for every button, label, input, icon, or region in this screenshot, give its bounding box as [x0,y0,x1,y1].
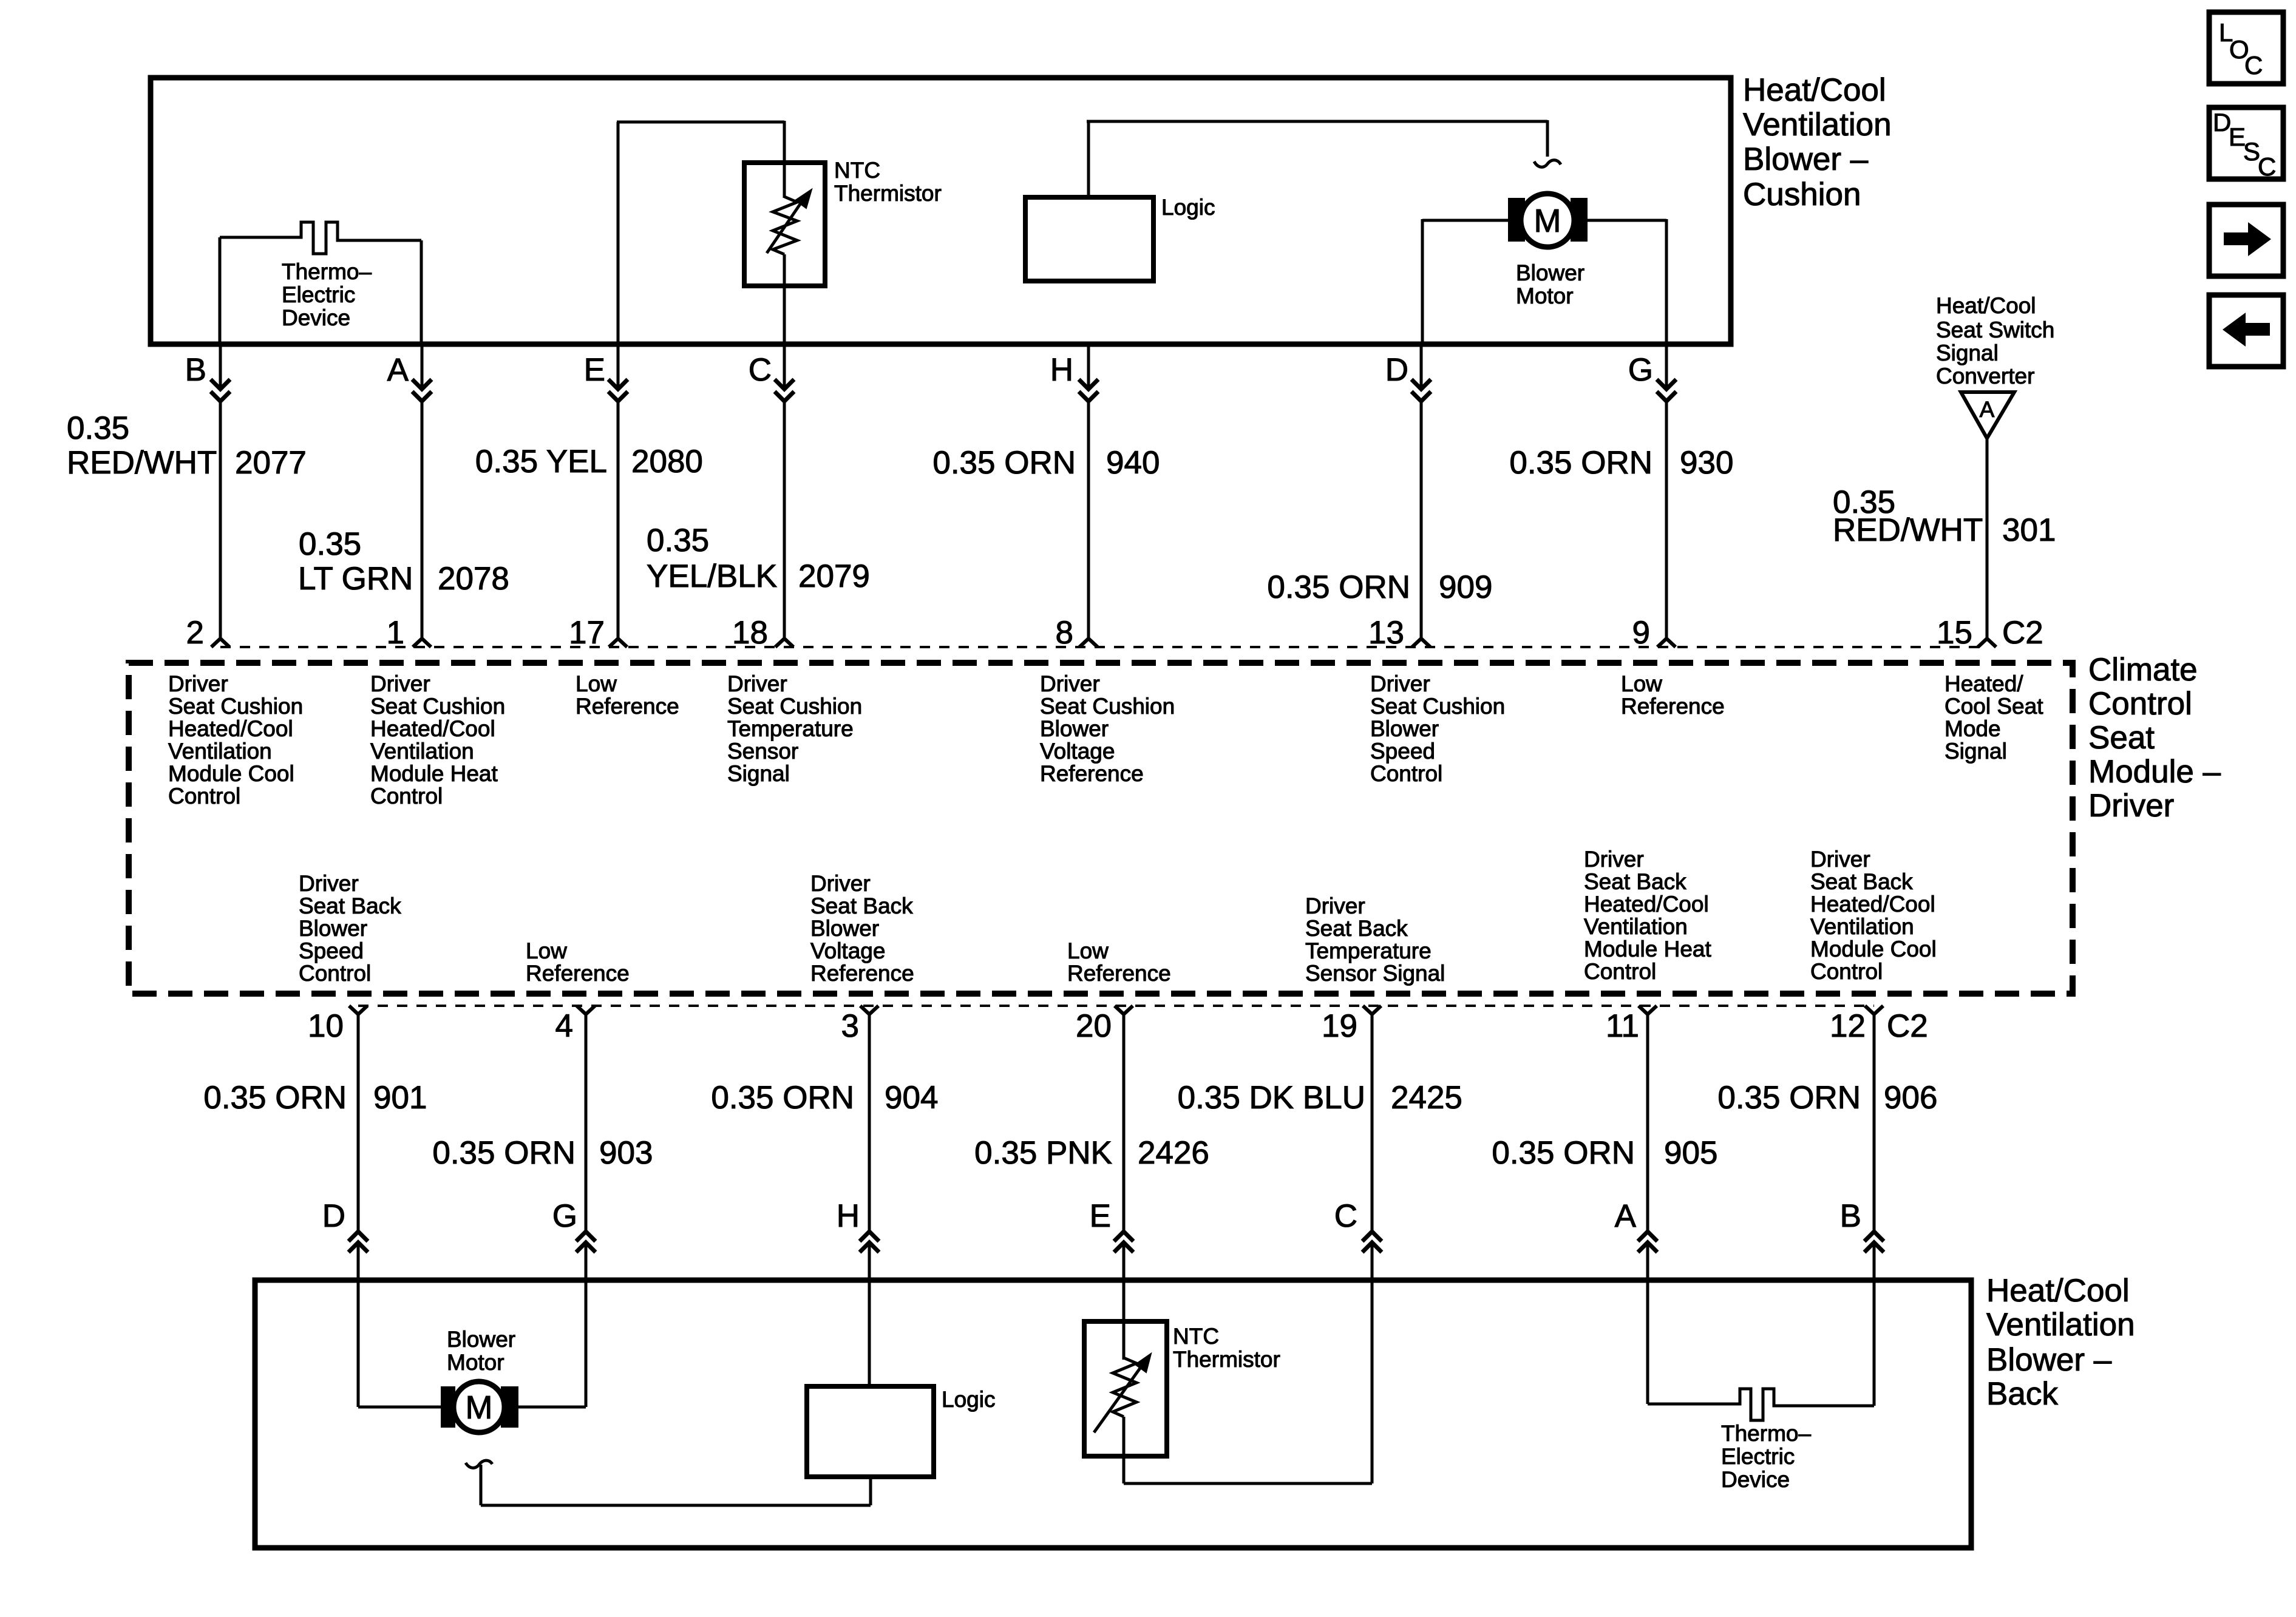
svg-text:NTC: NTC [834,158,880,183]
label: 0.35 LT GRN circuit 2078 [298,526,509,597]
svg-text:Voltage: Voltage [810,938,885,963]
svg-text:1: 1 [387,615,404,651]
svg-text:Seat Back: Seat Back [810,893,913,918]
wire: pin 12 to B with arrows [1873,1014,1876,1232]
svg-text:Driver: Driver [727,671,787,696]
label: 0.35 PNK circuit 2426 [974,1135,1209,1171]
svg-text:Low: Low [576,671,617,696]
svg-text:Device: Device [282,305,350,330]
thermo-electric device (back) heater element symbol [1648,1389,1874,1420]
svg-text:0.35 ORN: 0.35 ORN [1267,569,1410,605]
svg-text:909: 909 [1439,569,1492,605]
svg-text:Control: Control [1370,761,1442,786]
svg-text:Driver: Driver [1305,893,1365,918]
connector fork pin 10 [349,1006,367,1014]
blower motor M2 (back) body [453,1381,504,1432]
svg-text:Seat Cushion: Seat Cushion [1040,694,1175,719]
svg-text:18: 18 [732,615,768,651]
svg-text:0.35: 0.35 [299,526,361,562]
svg-text:Control: Control [1584,959,1656,984]
blower motor M2 (back) left brush [441,1386,455,1428]
svg-text:Control: Control [168,784,240,808]
svg-text:Module Cool: Module Cool [1810,937,1937,961]
svg-text:Signal: Signal [727,761,790,786]
svg-text:Module Heat: Module Heat [1584,937,1712,961]
label: pin 9 function: Low Reference [1621,671,1725,719]
svg-text:Ventilation: Ventilation [168,739,272,764]
svg-text:2426: 2426 [1138,1135,1209,1171]
converter triangle symbol A [1961,392,2014,438]
svg-text:Blower: Blower [1516,260,1584,285]
svg-text:C: C [2258,152,2276,181]
svg-text:Seat Cushion: Seat Cushion [1370,694,1505,719]
label: pin 18 function: Driver Seat Cushion Temperature Sensor Signal [727,671,862,786]
wire: pin E lead into back thermistor [1123,1279,1126,1360]
label: NTC Thermistor (cushion) [834,158,942,206]
connector fork pin 18 [775,639,793,647]
svg-text:C: C [1334,1198,1357,1234]
wire: motor right lead [1588,219,1666,222]
svg-text:Motor: Motor [447,1350,504,1375]
svg-text:0.35 ORN: 0.35 ORN [1509,445,1652,481]
svg-text:Mode: Mode [1944,716,2001,741]
svg-text:Speed: Speed [299,938,364,963]
svg-text:Motor: Motor [1516,283,1574,308]
NTC thermistor (cushion) arrow [767,196,806,253]
label: 0.35 ORN circuit 940 [932,445,1160,481]
wire: pin G drop with arrows [1665,344,1668,389]
label: 0.35 ORN circuit 930 [1509,445,1733,481]
wire: converter to pin 15 [1986,438,1989,639]
svg-text:Seat Back: Seat Back [299,893,401,918]
label: 0.35 ORN circuit 904 [711,1080,938,1116]
label: 0.35 ORN circuit 906 [1717,1080,1937,1116]
svg-text:906: 906 [1884,1080,1937,1116]
NTC thermistor (back) box [1084,1321,1167,1456]
label: pin 3 function: Driver Seat Back Blower Voltage Reference [810,871,914,986]
label: Heat/Cool Seat Switch Signal Converter [1936,293,2054,388]
svg-text:Electric: Electric [1721,1444,1795,1469]
svg-text:0.35 ORN: 0.35 ORN [1492,1135,1635,1171]
svg-text:901: 901 [373,1080,427,1116]
svg-text:Module –: Module – [2088,754,2221,790]
connector fork pin 13 [1412,639,1430,647]
logic module (cushion) box [1025,197,1153,281]
svg-text:2078: 2078 [438,561,509,597]
label: 0.35 RED/WHT circuit 301 [1833,484,2056,548]
label: 0.35 DK BLU circuit 2425 [1178,1080,1462,1116]
svg-text:Module Cool: Module Cool [168,761,294,786]
svg-text:0.35 ORN: 0.35 ORN [1717,1080,1861,1116]
svg-text:H: H [1050,352,1073,388]
svg-text:Low: Low [1067,938,1109,963]
svg-text:C: C [749,352,772,388]
svg-text:Heat/Cool: Heat/Cool [1743,72,1886,108]
svg-text:Driver: Driver [1810,847,1870,872]
wire: logic to motor feed [1087,120,1547,123]
wire: drop to motor tilde [1546,120,1549,157]
svg-text:0.35 ORN: 0.35 ORN [711,1080,854,1116]
NTC thermistor (cushion) box [744,163,825,286]
wire: pin C drop with arrows [783,344,786,389]
label: Heat/Cool Ventilation Blower - Back title [1986,1273,2135,1412]
svg-text:Voltage: Voltage [1040,739,1115,764]
wire: pin A drop with arrows [421,344,424,389]
wire: device left lead to pin B [219,237,222,344]
NTC thermistor (cushion) zigzag [773,197,797,254]
svg-text:0.35 ORN: 0.35 ORN [432,1135,576,1171]
svg-text:D: D [1385,352,1408,388]
connector fork pin 17 [609,639,627,647]
svg-text:C2: C2 [1887,1008,1928,1044]
svg-text:0.35 DK BLU: 0.35 DK BLU [1178,1080,1365,1116]
svg-text:2080: 2080 [631,444,703,480]
svg-text:Module Heat: Module Heat [370,761,498,786]
svg-text:H: H [837,1198,860,1234]
label: Thermo-Electric Device (cushion) [282,259,372,330]
box: Heat/Cool Ventilation Blower - Cushion outer box [151,78,1731,344]
label: pin 19 function: Driver Seat Back Temperature Sensor Signal [1305,893,1445,986]
button: LOC [2209,12,2283,84]
svg-text:2: 2 [186,615,204,651]
wire: back motor feedback to logic [480,1465,483,1505]
svg-text:LT GRN: LT GRN [298,561,413,597]
button: DESC [2209,107,2283,181]
svg-text:B: B [185,352,206,388]
svg-text:Reference: Reference [576,694,679,719]
svg-text:0.35: 0.35 [647,523,709,558]
svg-text:Seat Cushion: Seat Cushion [727,694,862,719]
svg-text:Reference: Reference [810,961,914,986]
wire: thermistor top lead [783,121,786,198]
connector fork pin 8 [1079,639,1098,647]
thermo-electric device (cushion) heater element symbol [220,222,421,254]
svg-text:Electric: Electric [282,282,355,307]
svg-text:Low: Low [526,938,567,963]
wire: pin D lead to back motor [357,1279,360,1407]
wire: motor left lead [1422,219,1508,222]
svg-text:Sensor: Sensor [727,739,798,764]
svg-text:NTC: NTC [1173,1324,1219,1349]
svg-text:13: 13 [1368,615,1404,651]
svg-text:Logic: Logic [1161,195,1215,220]
svg-text:Back: Back [1986,1376,2058,1412]
connector fork pin 3 [860,1006,878,1014]
svg-text:Driver: Driver [1584,847,1644,872]
svg-text:Driver: Driver [1040,671,1100,696]
svg-text:0.35 ORN: 0.35 ORN [203,1080,347,1116]
svg-text:Seat Back: Seat Back [1810,869,1913,894]
svg-text:19: 19 [1322,1008,1357,1044]
box: Heat/Cool Ventilation Blower - Back outer box [255,1280,1971,1548]
svg-text:0.35 PNK: 0.35 PNK [974,1135,1112,1171]
svg-text:Signal: Signal [1936,341,1999,365]
label: 0.35 ORN circuit 905 [1492,1135,1717,1171]
svg-text:Seat Cushion: Seat Cushion [168,694,303,719]
svg-text:Ventilation: Ventilation [1986,1307,2135,1343]
wire: pin 4 to G with arrows [585,1014,588,1232]
svg-text:Heated/Cool: Heated/Cool [168,716,293,741]
label: 0.35 ORN circuit 903 [432,1135,653,1171]
svg-text:Cool Seat: Cool Seat [1944,694,2043,719]
svg-text:8: 8 [1056,615,1073,651]
label: pin 11 function: Driver Seat Back Heated/Cool Ventilation Module Heat Control [1584,847,1712,984]
svg-text:A: A [1980,397,1995,422]
svg-text:Heated/: Heated/ [1944,671,2023,696]
connector fork pin 2 [211,639,229,647]
svg-text:301: 301 [2002,512,2056,548]
label: pin 1 function: Driver Seat Cushion Heated/Cool Ventilation Module Heat Control [370,671,505,808]
svg-text:4: 4 [555,1008,573,1044]
label: NTC Thermistor (back) [1173,1324,1280,1372]
svg-text:B: B [1840,1198,1861,1234]
svg-text:Sensor Signal: Sensor Signal [1305,961,1445,986]
svg-text:Speed: Speed [1370,739,1435,764]
svg-text:Driver: Driver [370,671,430,696]
blower motor M2 (back) right brush [501,1386,518,1428]
svg-text:20: 20 [1076,1008,1112,1044]
svg-text:C: C [2244,51,2263,80]
svg-text:Control: Control [299,961,371,986]
svg-text:G: G [552,1198,577,1234]
svg-text:12: 12 [1830,1008,1866,1044]
blower motor M1 (cushion) left brush [1508,198,1525,242]
svg-text:Blower: Blower [810,916,879,941]
svg-text:Low: Low [1621,671,1662,696]
svg-text:E: E [584,352,605,388]
svg-text:Temperature: Temperature [1305,938,1432,963]
label: 0.35 YEL circuit 2080 [475,444,703,480]
connector C2 line (top, thin dashed) [220,646,1987,648]
svg-text:Seat Back: Seat Back [1584,869,1686,894]
connector fork pin 19 [1363,1006,1381,1014]
svg-text:0.35 ORN: 0.35 ORN [932,445,1076,481]
button: previous arrow [2209,295,2283,367]
svg-text:15: 15 [1937,615,1972,651]
connector fork pin 1 [413,639,431,647]
wire: pin D drop with arrows [1420,344,1423,389]
tilde: motor coupling (cushion) [1534,160,1561,167]
wire: pin E riser [617,122,620,344]
svg-text:904: 904 [885,1080,938,1116]
svg-text:Temperature: Temperature [727,716,854,741]
svg-text:Blower: Blower [1370,716,1439,741]
wire: back thermistor bottom lead [1123,1417,1126,1483]
svg-text:Ventilation: Ventilation [1743,107,1892,143]
svg-text:Driver: Driver [168,671,228,696]
svg-text:Signal: Signal [1944,739,2007,764]
svg-text:M: M [1534,203,1561,239]
svg-text:0.35: 0.35 [67,410,129,446]
wire: pin B drop with arrows [219,344,222,389]
svg-text:Ventilation: Ventilation [370,739,474,764]
svg-text:Reference: Reference [1040,761,1144,786]
connector fork pin 11 [1639,1006,1657,1014]
label: 0.35 YEL/BLK circuit 2079 [647,523,870,594]
NTC thermistor (back) zigzag [1113,1358,1136,1417]
svg-text:Blower: Blower [299,916,367,941]
wire: pin E drop with arrows [617,344,620,389]
svg-text:Seat: Seat [2088,720,2155,756]
button: next arrow [2209,205,2283,276]
svg-text:Cushion: Cushion [1743,177,1861,212]
wire: pin 20 to E with arrows [1123,1014,1126,1232]
label: pin 2 function: Driver Seat Cushion Heated/Cool Ventilation Module Cool Control [168,671,303,808]
svg-text:Blower –: Blower – [1743,141,1869,177]
svg-text:RED/WHT: RED/WHT [1833,512,1983,548]
wire: motor right drop to pin G [1665,219,1668,344]
svg-text:Heated/Cool: Heated/Cool [1584,892,1709,917]
wire: pin H lead to back logic [868,1279,871,1386]
blower motor M1 (cushion) right brush [1571,198,1588,242]
svg-text:Heat/Cool: Heat/Cool [1986,1273,2130,1309]
svg-text:Blower –: Blower – [1986,1342,2112,1378]
svg-text:3: 3 [841,1008,859,1044]
tilde: back motor coupling [466,1460,492,1468]
connector fork pin 12 [1865,1006,1883,1014]
wire: pin 10 to D with arrows [357,1014,360,1232]
svg-text:Logic: Logic [942,1387,995,1412]
svg-text:C2: C2 [2002,615,2043,651]
label: Blower Motor (cushion) [1516,260,1584,308]
svg-text:Thermistor: Thermistor [1173,1347,1280,1372]
wire: pin 11 to A with arrows [1646,1014,1649,1232]
svg-text:2077: 2077 [235,445,307,481]
svg-text:Control: Control [2088,686,2192,722]
svg-text:Driver: Driver [299,871,359,896]
svg-text:Reference: Reference [526,961,630,986]
svg-text:Thermistor: Thermistor [834,181,942,206]
svg-text:940: 940 [1106,445,1160,481]
svg-text:G: G [1628,352,1653,388]
wire: logic top lead [1087,121,1090,198]
svg-text:Driver: Driver [2088,788,2174,824]
blower motor M1 (cushion) body [1521,194,1574,247]
wire: jog from E riser to thermistor top [617,121,784,124]
label: pin 10 function: Driver Seat Back Blower Speed Control [299,871,401,986]
connector fork pin 20 [1115,1006,1133,1014]
svg-text:Control: Control [370,784,443,808]
label: pin 20 function: Low Reference [1067,938,1171,986]
label: Blower Motor (back) [447,1327,515,1375]
NTC thermistor (back) arrow [1094,1360,1146,1432]
svg-text:RED/WHT: RED/WHT [67,445,217,481]
svg-text:Seat Back: Seat Back [1305,916,1408,941]
svg-text:Ventilation: Ventilation [1584,914,1688,939]
connector fork pin 9 [1657,639,1676,647]
wire: pin B lead to back thermo-electric device [1873,1279,1876,1406]
svg-text:Driver: Driver [810,871,871,896]
wire: thermistor bottom lead to pin C [783,254,786,344]
wire: pin 19 to C with arrows [1371,1014,1374,1232]
module box: Climate Control Seat Module - Driver (dashed) [129,663,2073,994]
svg-text:Converter: Converter [1936,364,2034,388]
svg-text:Ventilation: Ventilation [1810,914,1914,939]
svg-text:Climate: Climate [2088,652,2198,688]
svg-text:903: 903 [599,1135,653,1171]
label: Climate Control Seat Module - Driver title [2088,652,2221,824]
svg-text:Driver: Driver [1370,671,1430,696]
wire: motor left drop to pin D [1421,219,1424,344]
label: pin 17 function: Low Reference [576,671,679,719]
svg-text:E: E [1090,1198,1111,1234]
wire: pin 3 to H with arrows [868,1014,871,1232]
svg-text:Blower: Blower [447,1327,515,1352]
label: 0.35 RED/WHT circuit 2077 [67,410,307,481]
wire: back motor right lead to pin G [518,1406,586,1409]
svg-text:930: 930 [1680,445,1733,481]
label: 0.35 ORN circuit 909 [1267,569,1492,605]
svg-text:A: A [1615,1198,1637,1234]
svg-text:0.35 YEL: 0.35 YEL [475,444,607,480]
wire: device right lead to pin A [420,240,423,344]
label: pin 15 function: Heated/Cool Seat Mode Signal [1944,671,2043,764]
label: pin 4 function: Low Reference [526,938,630,986]
wire: pin H drop with arrows [1087,344,1090,389]
svg-text:Heat/Cool: Heat/Cool [1936,293,2036,318]
svg-text:Device: Device [1721,1467,1790,1492]
connector fork pin 4 [577,1006,595,1014]
svg-text:Heated/Cool: Heated/Cool [370,716,495,741]
svg-text:9: 9 [1632,615,1650,651]
connector C2 line (bottom, thin dashed) [358,1005,1874,1007]
label: Thermo-Electric Device (back) [1721,1421,1811,1492]
label: Heat/Cool Ventilation Blower - Cushion title [1743,72,1892,212]
svg-text:905: 905 [1664,1135,1717,1171]
svg-text:Seat Switch: Seat Switch [1936,317,2054,342]
svg-text:Heated/Cool: Heated/Cool [1810,892,1935,917]
svg-text:Blower: Blower [1040,716,1109,741]
svg-text:Reference: Reference [1621,694,1725,719]
label: pin 12 function: Driver Seat Back Heated/Cool Ventilation Module Cool Control [1810,847,1937,984]
svg-text:Thermo–: Thermo– [1721,1421,1811,1446]
svg-text:10: 10 [308,1008,344,1044]
svg-text:Control: Control [1810,959,1883,984]
wire: thermistor to pin C riser [1124,1482,1372,1485]
logic module (back) box [807,1386,934,1477]
svg-text:YEL/BLK: YEL/BLK [647,558,777,594]
label: pin 13 function: Driver Seat Cushion Blower Speed Control [1370,671,1505,786]
connector fork pin 15 [1978,639,1996,647]
svg-text:11: 11 [1606,1008,1639,1044]
wire: pin A lead to back thermo-electric device [1646,1279,1649,1404]
svg-text:D: D [322,1198,345,1234]
svg-text:2079: 2079 [798,558,870,594]
svg-text:A: A [387,352,409,388]
svg-text:2425: 2425 [1391,1080,1462,1116]
svg-text:M: M [466,1389,493,1426]
svg-text:Seat Cushion: Seat Cushion [370,694,505,719]
svg-text:17: 17 [569,615,605,651]
label: pin 8 function: Driver Seat Cushion Blower Voltage Reference [1040,671,1175,786]
label: 0.35 ORN circuit 901 [203,1080,427,1116]
svg-text:Thermo–: Thermo– [282,259,372,284]
svg-text:Reference: Reference [1067,961,1171,986]
